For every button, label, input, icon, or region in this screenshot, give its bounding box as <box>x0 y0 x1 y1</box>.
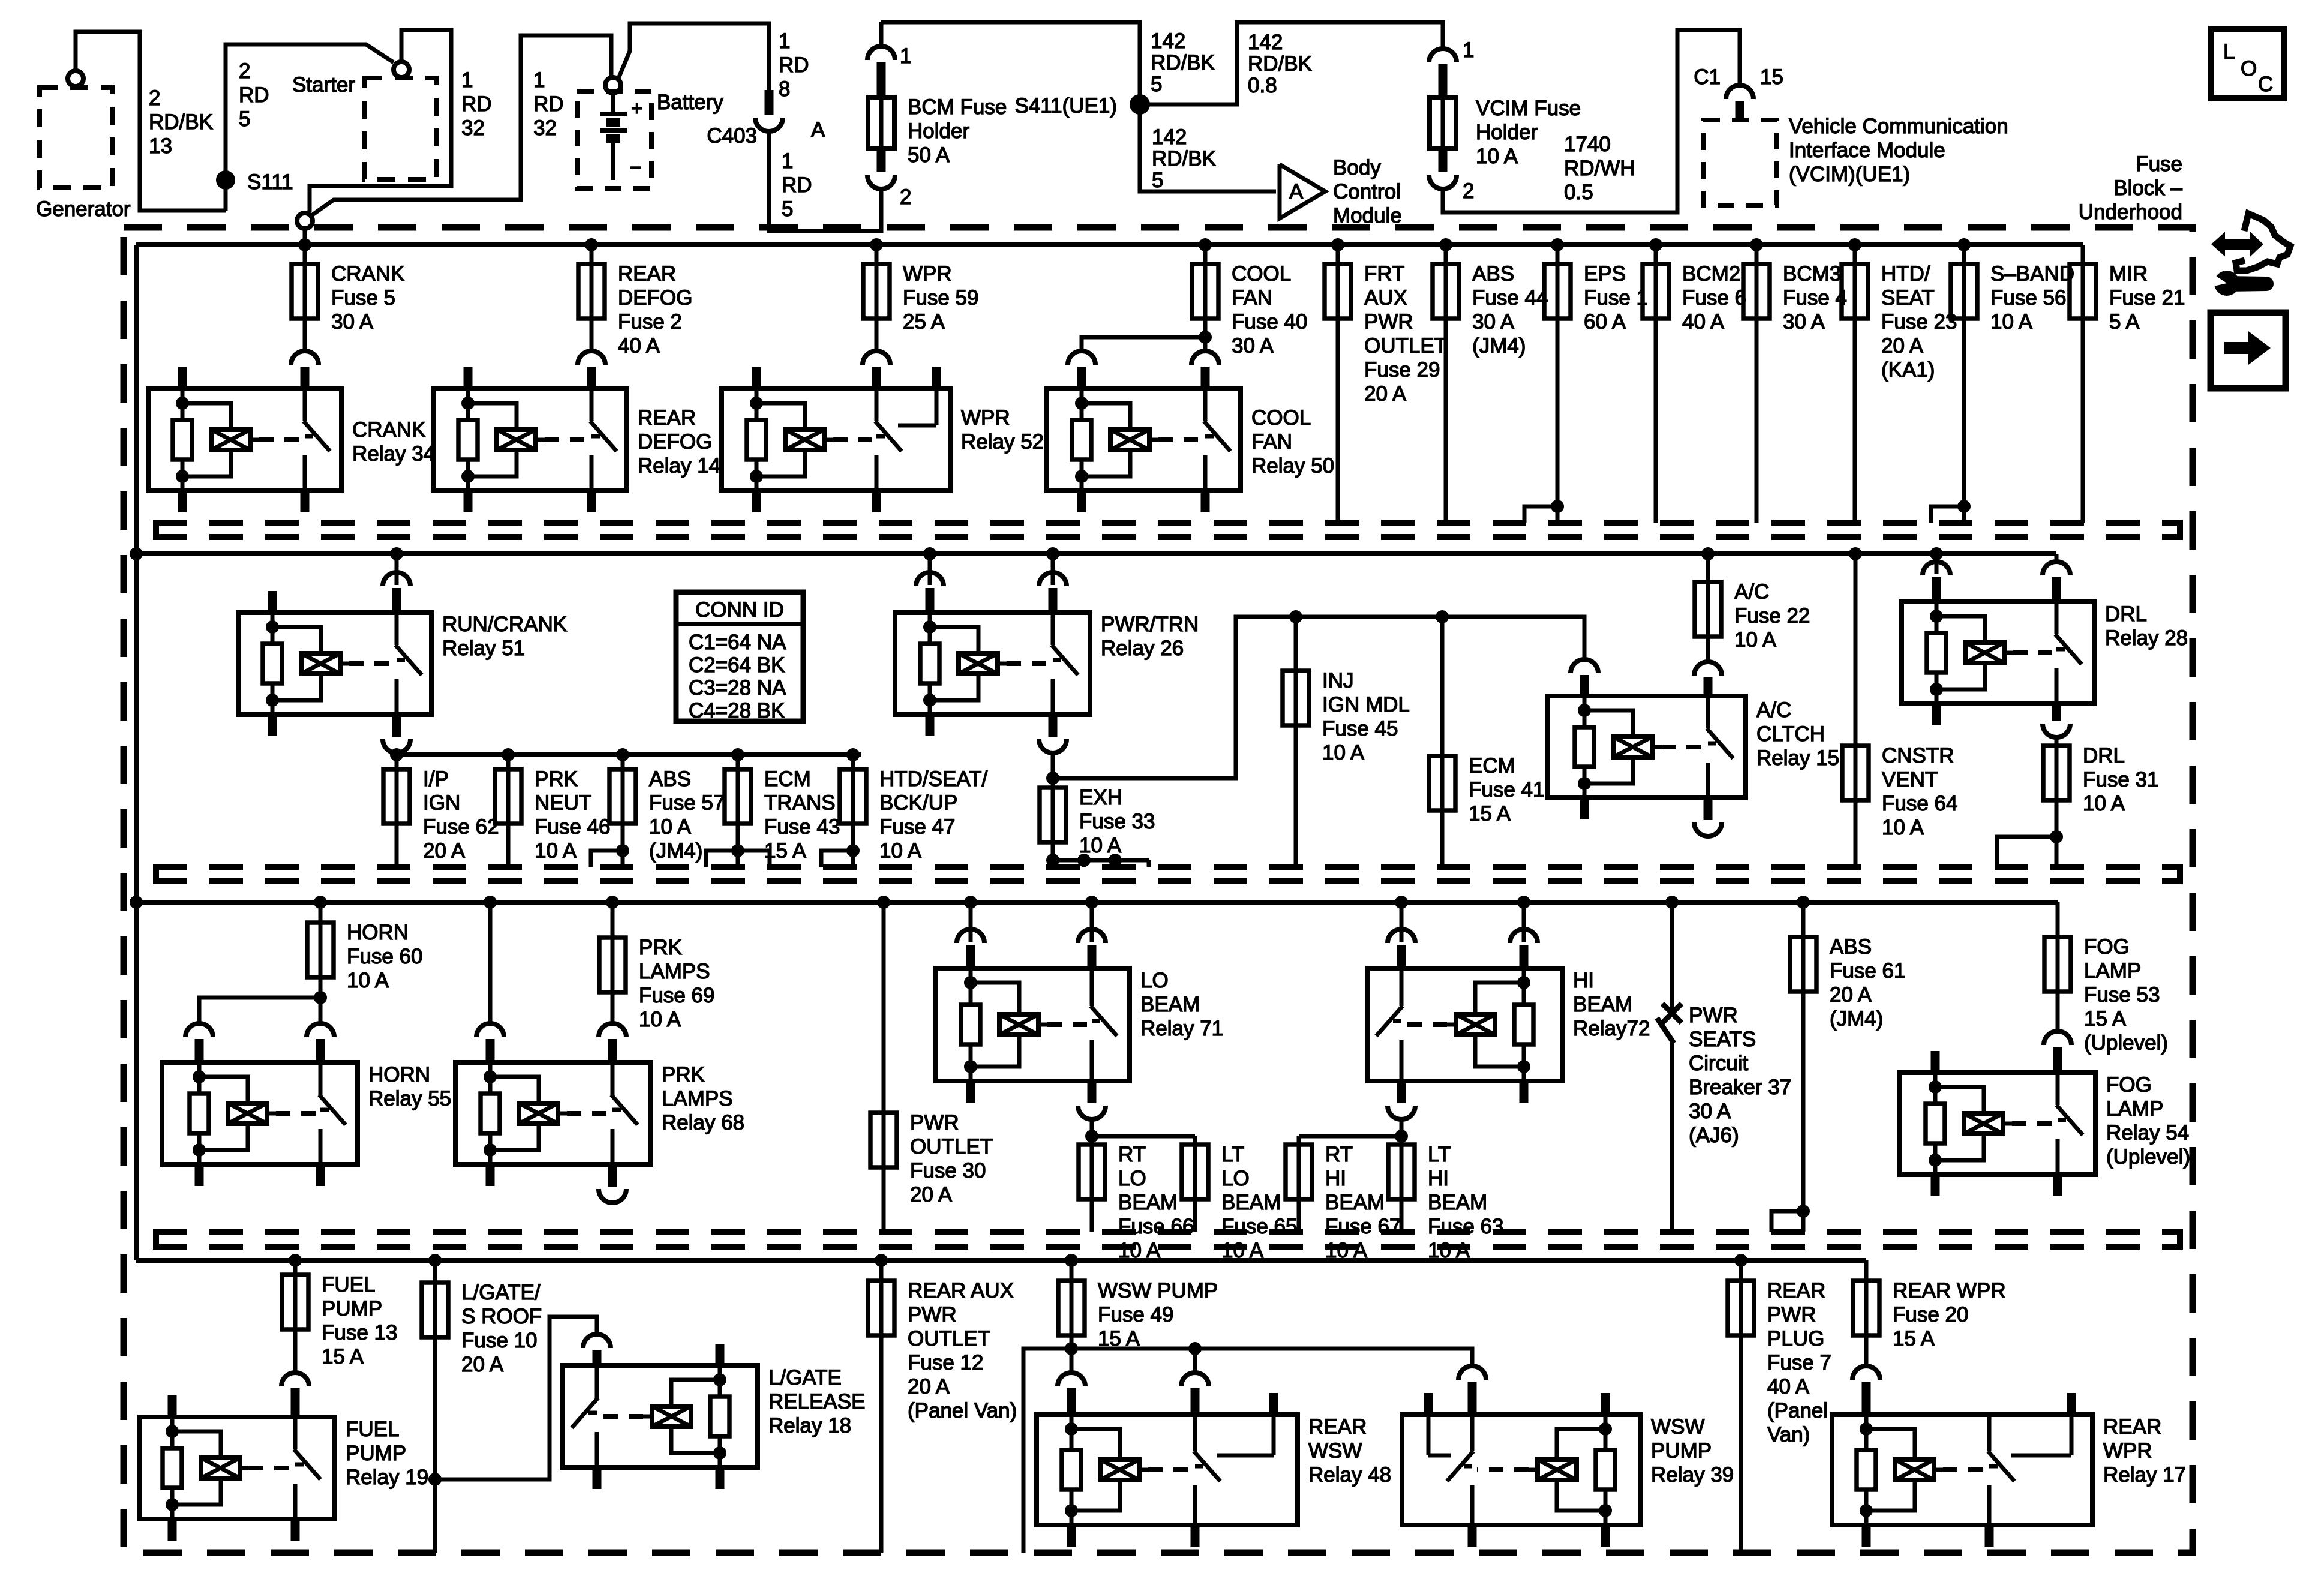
junction on row3 bus x=534 <box>314 896 327 909</box>
fuse A/C Fuse 22 <box>1695 554 1810 662</box>
svg-text:8: 8 <box>779 77 790 101</box>
relay WPR Relay 52 <box>722 367 1044 512</box>
wire to relay48 switch <box>1193 1349 1197 1372</box>
svg-text:ABS: ABS <box>1472 262 1514 286</box>
junction below L/GATE fuse <box>428 1473 442 1486</box>
svg-text:BCM3: BCM3 <box>1783 262 1841 286</box>
svg-text:Relay 48: Relay 48 <box>1308 1463 1391 1487</box>
svg-text:Starter: Starter <box>292 73 355 97</box>
svg-text:Fuse 29: Fuse 29 <box>1364 358 1440 382</box>
relay HI BEAM switch feed <box>1388 902 1415 968</box>
connector arc L/GATE switch feed <box>583 1334 611 1365</box>
svg-text:LAMPS: LAMPS <box>639 960 710 983</box>
svg-text:C4=28 BK: C4=28 BK <box>689 699 785 722</box>
wire PRK LAMPS coil feed <box>488 902 493 1023</box>
vehicle service icon <box>2211 214 2290 296</box>
fuse REAR WPR Fuse 20 <box>1853 1272 2006 1365</box>
junction on row1 bus x=2596 <box>1551 238 1564 251</box>
junction on row4 bus x=492 <box>289 1254 302 1267</box>
junction on row1 bus x=508 <box>298 238 311 251</box>
fuse FUEL PUMP Fuse 13 <box>282 1260 397 1372</box>
connector arc relay39 switch feed <box>1458 1366 1486 1415</box>
relay WSW PUMP Relay 39 <box>1402 1393 1734 1547</box>
svg-text:1: 1 <box>900 44 911 68</box>
svg-text:Fuse 59: Fuse 59 <box>903 286 978 310</box>
wire ABS61 bottom hook <box>1771 1205 1810 1232</box>
wire row2 bus corner to DRL switch <box>2055 554 2059 562</box>
svg-text:10 A: 10 A <box>879 839 922 863</box>
svg-text:RUN/CRANK: RUN/CRANK <box>442 613 567 636</box>
svg-text:Van): Van) <box>1767 1423 1810 1446</box>
connector arc COOL FAN coil <box>1068 351 1095 389</box>
svg-text:Fuse 45: Fuse 45 <box>1322 717 1398 740</box>
svg-text:10 A: 10 A <box>2083 792 2125 815</box>
wire WSW fuse to relay48 coil <box>1070 1349 1074 1372</box>
fuse INJ IGN MDL Fuse 45 <box>1283 617 1410 867</box>
svg-text:(Panel: (Panel <box>1767 1399 1828 1422</box>
svg-text:Body: Body <box>1333 156 1381 179</box>
svg-text:CRANK: CRANK <box>352 418 426 442</box>
svg-text:BCK/UP: BCK/UP <box>879 791 957 815</box>
svg-text:Fuse 47: Fuse 47 <box>879 815 955 839</box>
connector arc FOG LAMP switch feed <box>2044 1031 2071 1073</box>
svg-text:Battery: Battery <box>657 91 723 114</box>
fuse BCM2 Fuse 6 <box>1643 245 1746 523</box>
fuse PRK NEUT Fuse 46 <box>495 755 610 867</box>
svg-text:Relay 28: Relay 28 <box>2105 626 2188 650</box>
row separator 2 <box>154 864 2182 884</box>
junction on row2 sub-bus x=1230 <box>731 748 744 761</box>
svg-text:10 A: 10 A <box>1882 816 1924 839</box>
svg-text:30 A: 30 A <box>1783 310 1825 334</box>
svg-text:20 A: 20 A <box>1364 382 1407 406</box>
VCIM fuse holder pin 1 <box>1429 38 1474 97</box>
svg-text:PLUG: PLUG <box>1767 1327 1824 1350</box>
fuse RT LO BEAM Fuse 66 <box>1079 1136 1194 1262</box>
svg-text:PWR: PWR <box>908 1303 957 1326</box>
wire label 1 RD 32 (battery) <box>533 68 564 140</box>
junction on row1 bus x=2928 <box>1750 238 1763 251</box>
svg-text:NEUT: NEUT <box>535 791 591 815</box>
svg-text:Relay 18: Relay 18 <box>768 1414 851 1437</box>
connector cup DRL switch out <box>2043 704 2070 737</box>
svg-text:13: 13 <box>149 134 172 158</box>
svg-text:COOL: COOL <box>1251 406 1311 430</box>
junction on row3 bus x=1820 <box>1085 896 1098 909</box>
svg-text:Fuse 56: Fuse 56 <box>1990 286 2066 310</box>
wire label 2 RD 5 <box>239 59 269 131</box>
starter ring terminal <box>394 62 409 77</box>
svg-text:RT: RT <box>1118 1143 1146 1166</box>
svg-text:10 A: 10 A <box>639 1008 681 1031</box>
svg-text:LT: LT <box>1428 1143 1451 1166</box>
svg-text:142: 142 <box>1152 125 1187 149</box>
svg-text:RD: RD <box>239 83 269 107</box>
svg-text:L: L <box>2223 40 2235 64</box>
svg-text:CRANK: CRANK <box>331 262 405 286</box>
svg-text:S ROOF: S ROOF <box>461 1305 542 1328</box>
wire label 2 RD/BK 13 <box>149 86 213 158</box>
svg-text:60 A: 60 A <box>1584 310 1626 334</box>
junction on row1 bus x=2760 <box>1649 238 1662 251</box>
svg-text:Fuse 6: Fuse 6 <box>1682 286 1746 310</box>
wire HI BEAM out to beam fuses <box>1299 1119 1408 1143</box>
svg-text:30 A: 30 A <box>331 310 374 334</box>
svg-text:Fuse 69: Fuse 69 <box>639 984 714 1007</box>
fuse ABS Fuse 57 <box>609 755 725 867</box>
wire label 1 RD 5 <box>782 149 812 221</box>
connector arc CRANK fuse to relay <box>291 351 319 389</box>
fuse REAR DEFOG Fuse 2 <box>578 245 692 358</box>
svg-text:(JM4): (JM4) <box>1472 334 1526 358</box>
svg-text:32: 32 <box>533 116 557 140</box>
connector C1 pin 15 <box>1694 65 1783 120</box>
wire RUN/CRANK out to sub-bus <box>395 752 399 755</box>
svg-text:BEAM: BEAM <box>1140 993 1200 1016</box>
svg-text:Fuse 63: Fuse 63 <box>1428 1215 1503 1238</box>
svg-text:Fuse 31: Fuse 31 <box>2083 768 2158 791</box>
svg-text:Fuse 46: Fuse 46 <box>535 815 610 839</box>
relay HI BEAM Relay72 <box>1368 968 1650 1103</box>
junction on row4 bus x=2902 <box>1734 1254 1747 1267</box>
svg-text:PUMP: PUMP <box>346 1442 406 1465</box>
connector arc COOL FAN switch <box>1191 351 1219 389</box>
svg-text:SEAT: SEAT <box>1881 286 1935 310</box>
junction on row1 bus x=2230 <box>1331 238 1344 251</box>
svg-text:WPR: WPR <box>903 262 952 286</box>
svg-text:Fuse 30: Fuse 30 <box>910 1159 986 1182</box>
wire ABS57 bottom hook <box>591 844 629 867</box>
svg-text:VCIM Fuse: VCIM Fuse <box>1476 97 1581 120</box>
fuse ABS Fuse 44 <box>1433 245 1548 523</box>
fuse PRK LAMPS Fuse 69 <box>599 902 714 1031</box>
connector arc relay17 coil feed <box>1852 1366 1880 1415</box>
svg-text:A/C: A/C <box>1756 698 1791 722</box>
fuse CRANK Fuse 5 <box>292 245 405 352</box>
fuse HTD/SEAT Fuse 23 <box>1842 245 1957 523</box>
svg-text:(JM4): (JM4) <box>649 839 702 863</box>
wire starter to fuse block 1 RD 32 <box>306 30 451 215</box>
svg-text:−: − <box>630 156 641 178</box>
relay FOG LAMP Relay 54 <box>1900 1051 2190 1196</box>
svg-text:Relay 26: Relay 26 <box>1101 637 1184 660</box>
svg-text:10 A: 10 A <box>347 969 389 992</box>
svg-text:REAR: REAR <box>1308 1415 1367 1439</box>
svg-text:RD: RD <box>782 173 812 197</box>
battery label <box>657 91 723 114</box>
wire WSW distribution <box>1023 1342 1472 1553</box>
relay PWR/TRN Relay 26 <box>895 613 1199 736</box>
svg-text:20 A: 20 A <box>910 1183 953 1206</box>
fuse ECM Fuse 41 <box>1429 617 1544 867</box>
svg-text:EPS: EPS <box>1584 262 1626 286</box>
svg-text:O: O <box>2241 57 2257 80</box>
fuse RT HI BEAM Fuse 67 <box>1286 1136 1401 1262</box>
svg-text:REAR WPR: REAR WPR <box>1893 1279 2006 1302</box>
LOC box <box>2211 29 2284 98</box>
fuse HTD/SEAT/BCK/UP Fuse 47 <box>840 755 987 867</box>
node S411 <box>1014 94 1150 118</box>
wire S-BAND bottom hook <box>1931 500 1971 523</box>
fuse MIR Fuse 21 <box>2070 245 2185 523</box>
svg-text:(JM4): (JM4) <box>1830 1007 1883 1031</box>
svg-text:0.8: 0.8 <box>1248 74 1277 97</box>
svg-text:ABS: ABS <box>649 767 691 791</box>
connector cup HI BEAM switch out <box>1388 1081 1415 1119</box>
wire row4 bus corner to REAR WPR fuse <box>1864 1260 1869 1272</box>
junction on row1 bus x=3092 <box>1848 238 1861 251</box>
connector cup A/C CLTCH switch out <box>1694 798 1722 836</box>
junction on row2 bus x=661 <box>390 547 403 560</box>
svg-text:FAN: FAN <box>1232 286 1272 310</box>
svg-text:Relay72: Relay72 <box>1573 1017 1650 1040</box>
svg-text:10 A: 10 A <box>1734 628 1777 652</box>
svg-text:WSW PUMP: WSW PUMP <box>1098 1279 1218 1302</box>
svg-text:Fuse 2: Fuse 2 <box>618 310 682 334</box>
svg-text:Circuit: Circuit <box>1689 1052 1748 1075</box>
svg-text:RD/BK: RD/BK <box>1151 51 1215 74</box>
svg-text:1: 1 <box>1463 38 1474 62</box>
junction on row3 bus x=1618 <box>964 896 977 909</box>
svg-text:Fuse 44: Fuse 44 <box>1472 286 1548 310</box>
svg-text:RD/BK: RD/BK <box>149 110 213 134</box>
connector arc relay48 coil feed <box>1058 1373 1085 1415</box>
junction ECM branch <box>1436 610 1449 623</box>
svg-text:PUMP: PUMP <box>322 1297 382 1320</box>
svg-text:Holder: Holder <box>908 119 969 143</box>
wire Fuse47 bottom hook <box>821 844 860 867</box>
svg-text:AUX: AUX <box>1364 286 1407 310</box>
svg-text:PWR/TRN: PWR/TRN <box>1101 613 1199 636</box>
junction on row2 sub-bus x=661 <box>390 748 403 761</box>
svg-text:40 A: 40 A <box>1682 310 1725 334</box>
svg-text:REAR AUX: REAR AUX <box>908 1279 1014 1302</box>
svg-text:Relay 14: Relay 14 <box>638 454 720 478</box>
BCM fuse holder pin 1 <box>867 22 911 97</box>
svg-text:Fuse 5: Fuse 5 <box>331 286 395 310</box>
svg-text:A: A <box>1289 180 1304 203</box>
svg-text:RD/BK: RD/BK <box>1248 52 1312 76</box>
junction on row2 sub-bus x=847 <box>502 748 515 761</box>
svg-text:S–BAND: S–BAND <box>1990 262 2074 286</box>
relay LO BEAM Relay 71 <box>936 968 1223 1103</box>
svg-text:Relay 34: Relay 34 <box>352 442 435 466</box>
connector C403 <box>707 90 825 148</box>
svg-text:Fuse 57: Fuse 57 <box>649 791 725 815</box>
BCM fuse holder pin 2 <box>867 149 911 209</box>
fuse block label <box>2079 152 2183 224</box>
svg-text:Fuse 43: Fuse 43 <box>764 815 840 839</box>
fuse REAR AUX PWR OUTLET Fuse 12 <box>868 1260 1017 1553</box>
svg-text:PUMP: PUMP <box>1651 1439 1712 1463</box>
connector cup RUN/CRANK switch out <box>383 715 410 753</box>
connector arc A/C CLTCH coil feed <box>1571 659 1598 696</box>
svg-text:5 A: 5 A <box>2109 310 2140 334</box>
svg-text:1: 1 <box>782 149 793 173</box>
svg-text:20 A: 20 A <box>1830 983 1872 1007</box>
fuse EXH Fuse 33 <box>1040 778 1155 860</box>
svg-text:2: 2 <box>900 185 911 209</box>
svg-text:Fuse 49: Fuse 49 <box>1098 1303 1173 1326</box>
VCIM dashed box <box>1703 120 1777 205</box>
wire EXH bottom exits <box>1046 854 1149 867</box>
junction on row1 bus x=2009 <box>1199 238 1212 251</box>
svg-text:50 A: 50 A <box>908 143 950 167</box>
svg-text:25 A: 25 A <box>903 310 945 334</box>
svg-text:CNSTR: CNSTR <box>1882 744 1954 767</box>
svg-text:40 A: 40 A <box>1767 1375 1810 1398</box>
svg-text:BEAM: BEAM <box>1118 1191 1178 1214</box>
relay PWR/TRN Relay 26 coil feed <box>916 554 944 613</box>
relay FUEL PUMP Relay 19 <box>140 1395 428 1541</box>
connector arc A/C fuse to relay <box>1694 662 1722 696</box>
svg-text:OUTLET: OUTLET <box>1364 334 1447 358</box>
svg-text:L/GATE/: L/GATE/ <box>461 1281 541 1304</box>
svg-text:REAR: REAR <box>618 262 676 286</box>
VCIM label <box>1789 115 2008 186</box>
svg-text:Fuse 12: Fuse 12 <box>908 1351 983 1374</box>
svg-text:RD/BK: RD/BK <box>1152 147 1216 170</box>
wire battery branch 1 RD 32 <box>311 35 611 216</box>
svg-text:IGN: IGN <box>423 791 460 815</box>
svg-text:Vehicle Communication: Vehicle Communication <box>1789 115 2008 138</box>
junction on row4 bus x=725 <box>428 1254 442 1267</box>
svg-text:EXH: EXH <box>1079 786 1122 809</box>
svg-text:PRK: PRK <box>662 1063 705 1086</box>
junction on row2 sub-bus x=1422 <box>846 748 860 761</box>
wire generator to S111 node <box>76 32 226 211</box>
svg-text:Fuse 66: Fuse 66 <box>1118 1215 1194 1238</box>
wire row3 bus corner to FOG fuse <box>2056 902 2060 911</box>
svg-text:REAR: REAR <box>2103 1415 2161 1439</box>
fuse COOL FAN Fuse 40 <box>1192 245 1307 358</box>
svg-text:RD/WH: RD/WH <box>1564 157 1635 180</box>
svg-text:1740: 1740 <box>1564 133 1611 156</box>
svg-text:FRT: FRT <box>1364 262 1404 286</box>
fuse REAR PWR PLUG Fuse 7 <box>1728 1260 1831 1553</box>
svg-text:20 A: 20 A <box>1881 334 1924 358</box>
svg-text:(VCIM)(UE1): (VCIM)(UE1) <box>1789 163 1910 186</box>
wire ring into fuse block <box>303 229 307 245</box>
relay LO BEAM switch feed <box>1078 902 1106 968</box>
connector arc REAR DEFOG fuse to relay <box>578 351 605 389</box>
svg-text:Relay 71: Relay 71 <box>1140 1017 1223 1040</box>
svg-text:PRK: PRK <box>639 936 682 959</box>
svg-text:30 A: 30 A <box>1689 1100 1731 1123</box>
svg-text:LO: LO <box>1221 1167 1250 1190</box>
svg-text:PRK: PRK <box>535 767 578 791</box>
junction on row1 bus x=3274 <box>1957 238 1971 251</box>
svg-text:ECM: ECM <box>764 767 811 791</box>
svg-text:PWR: PWR <box>1689 1004 1738 1027</box>
relay REAR DEFOG Relay 14 <box>434 367 720 512</box>
fuse S-BAND Fuse 56 <box>1951 245 2074 523</box>
svg-text:BCM2: BCM2 <box>1682 262 1740 286</box>
generator ring terminal <box>68 71 83 86</box>
svg-text:DRL: DRL <box>2083 744 2125 767</box>
svg-text:S111: S111 <box>247 170 293 194</box>
relay PRK LAMPS Relay 68 <box>455 1062 744 1186</box>
svg-text:Module: Module <box>1333 204 1402 227</box>
starter dashed box <box>292 73 436 179</box>
wire LO BEAM out to beam fuses <box>1085 1119 1195 1143</box>
wire DRL fuse bottom hook <box>1997 830 2063 867</box>
svg-text:Control: Control <box>1333 180 1401 203</box>
connector arc PRK LAMPS coil <box>476 1023 504 1062</box>
svg-text:LAMP: LAMP <box>2084 959 2141 983</box>
junction on row3 bus x=227 <box>130 896 143 909</box>
wire VCIM holder to C1 1740 RD/WH 0.5 <box>1443 30 1740 212</box>
svg-text:Relay 68: Relay 68 <box>662 1111 744 1134</box>
svg-text:A: A <box>811 118 825 142</box>
svg-text:2: 2 <box>239 59 250 83</box>
svg-text:C3=28 NA: C3=28 NA <box>689 676 786 700</box>
relay RUN/CRANK Relay 51 <box>238 591 567 736</box>
relay COOL FAN Relay 50 <box>1047 389 1334 512</box>
svg-text:I/P: I/P <box>423 767 449 791</box>
svg-text:LO: LO <box>1140 969 1169 992</box>
svg-text:WSW: WSW <box>1651 1415 1704 1439</box>
svg-text:1: 1 <box>779 29 790 53</box>
svg-text:Fuse 1: Fuse 1 <box>1584 286 1648 310</box>
junction on row3 bus x=817 <box>484 896 497 909</box>
svg-text:BEAM: BEAM <box>1573 993 1632 1016</box>
svg-text:Fuse 10: Fuse 10 <box>461 1329 537 1352</box>
svg-text:SEATS: SEATS <box>1689 1028 1756 1051</box>
row separator 1 <box>154 520 2182 540</box>
battery symbol <box>600 93 642 180</box>
svg-text:15 A: 15 A <box>1469 802 1511 825</box>
wire COOL FAN fuse to switch pin <box>1203 337 1208 352</box>
row 2 sub-bus <box>397 752 861 757</box>
junction on row3 bus x=2787 <box>1665 896 1679 909</box>
svg-text:PWR: PWR <box>1767 1303 1816 1326</box>
svg-text:40 A: 40 A <box>618 334 660 358</box>
svg-text:LT: LT <box>1221 1143 1244 1166</box>
svg-text:Fuse 65: Fuse 65 <box>1221 1215 1297 1238</box>
svg-text:Fuse 33: Fuse 33 <box>1079 810 1155 833</box>
svg-text:VENT: VENT <box>1882 768 1938 791</box>
junction INJ branch <box>1289 610 1302 623</box>
svg-text:WSW: WSW <box>1308 1439 1362 1463</box>
svg-text:WPR: WPR <box>2103 1439 2152 1463</box>
svg-text:(AJ6): (AJ6) <box>1689 1124 1739 1147</box>
connector arc PRK LAMPS switch <box>599 1023 626 1062</box>
svg-text:L/GATE: L/GATE <box>768 1366 842 1389</box>
wire C403 to BCM fuse holder 1 RD 5 <box>769 131 881 231</box>
relay RUN/CRANK Relay 51 feed <box>383 554 410 613</box>
row 3 bus <box>136 900 2058 905</box>
junction on row4 bus x=1786 <box>1065 1254 1078 1267</box>
svg-text:FOG: FOG <box>2084 935 2130 959</box>
svg-text:5: 5 <box>1152 169 1163 192</box>
svg-text:2: 2 <box>149 86 160 110</box>
fuse LT LO BEAM Fuse 65 <box>1182 1136 1297 1262</box>
connector cup LO BEAM switch out <box>1078 1081 1106 1119</box>
svg-text:HI: HI <box>1428 1167 1449 1190</box>
svg-text:Fuse 41: Fuse 41 <box>1469 778 1544 801</box>
svg-text:Fuse 62: Fuse 62 <box>423 815 499 839</box>
svg-text:15 A: 15 A <box>322 1345 364 1368</box>
svg-text:CLTCH: CLTCH <box>1756 722 1825 746</box>
wire label 1 RD 8 <box>779 29 809 101</box>
svg-text:Relay 51: Relay 51 <box>442 637 525 660</box>
svg-text:WPR: WPR <box>961 406 1010 430</box>
svg-text:(KA1): (KA1) <box>1881 358 1935 382</box>
junction on row1 bus x=2410 <box>1439 238 1452 251</box>
svg-text:ABS: ABS <box>1830 935 1872 959</box>
left power rail <box>134 245 139 1260</box>
